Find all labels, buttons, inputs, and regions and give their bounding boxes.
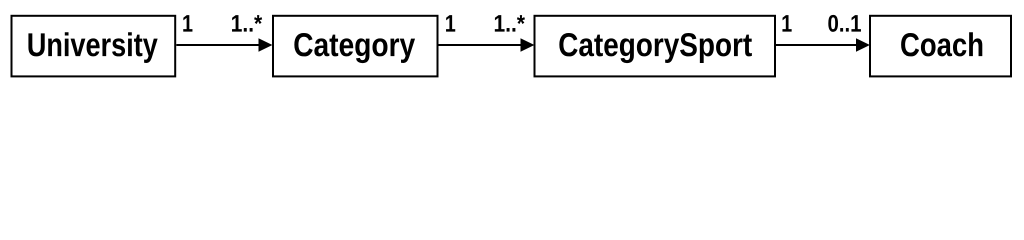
multiplicity 1 at CategorySport end (782, 15, 791, 32)
arrowhead into Coach (856, 38, 870, 51)
arrowhead into CategorySport (521, 38, 535, 51)
multiplicity 1 at University end (183, 15, 192, 32)
class box Category (273, 16, 438, 77)
association University to Category (wire) (176, 44, 259, 46)
arrowhead into Category (259, 38, 273, 51)
class box University (12, 16, 176, 77)
multiplicity 1..* at Category end (232, 15, 262, 32)
multiplicity 1 at Category end (446, 15, 455, 32)
association Category to CategorySport (wire) (438, 44, 521, 46)
multiplicity 1..* at CategorySport end (495, 15, 525, 32)
class box Coach (870, 16, 1011, 77)
association CategorySport to Coach (wire) (776, 44, 857, 46)
class box CategorySport (535, 16, 776, 77)
multiplicity 0..1 at Coach end (828, 15, 861, 32)
